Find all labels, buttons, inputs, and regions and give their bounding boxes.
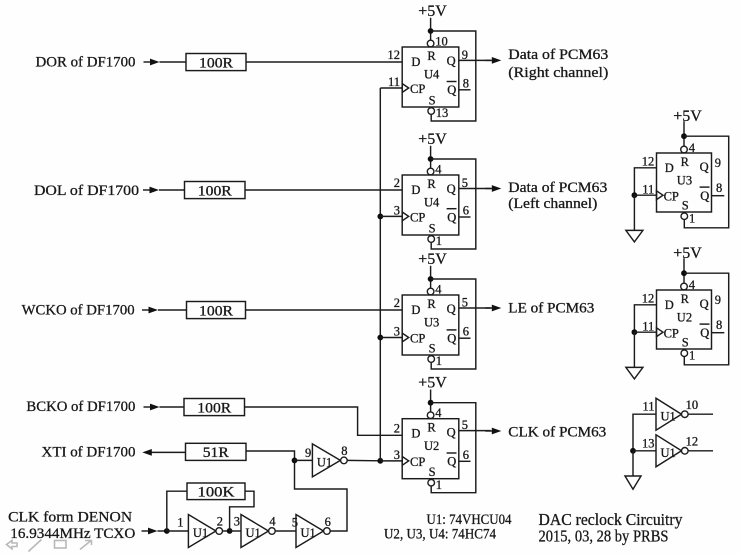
svg-text:+5V: +5V	[673, 245, 702, 262]
svg-text:D: D	[411, 183, 420, 197]
resistor R5 51R	[186, 443, 247, 461]
wire +5V wrap to S pin (spare U3)	[684, 136, 729, 228]
wire tie to ground (spare U2)	[633, 332, 635, 367]
wire +5V wrap to S pin (spare U2)	[684, 273, 729, 365]
wire U1e output stub	[688, 413, 713, 415]
U1a output bubble (pin 2)	[216, 528, 223, 535]
svg-text:D: D	[411, 303, 420, 317]
wire node A to inverter U1a	[167, 530, 189, 532]
svg-text:11: 11	[642, 319, 654, 333]
note U2 U3 U4 part number	[384, 526, 496, 542]
wire +5V wrap to S pin (U3)	[431, 279, 476, 369]
svg-text:100K: 100K	[198, 485, 236, 501]
svg-text:U1: U1	[661, 409, 676, 423]
svg-text:D: D	[411, 55, 420, 69]
+5V power label for spare U3	[673, 108, 702, 125]
arrow Data left channel	[485, 185, 501, 192]
R pin bubble (spare U3 pin 4)	[681, 146, 688, 153]
svg-text:100R: 100R	[199, 303, 233, 319]
svg-text:CP: CP	[664, 326, 679, 340]
pin 3 number (CP of U2)	[394, 448, 400, 462]
svg-text:LE of PCM63: LE of PCM63	[508, 300, 594, 316]
output label LE of PCM63	[508, 300, 594, 316]
pin 10 number (R of U4)	[435, 35, 448, 49]
pin 1 number (spare U3)	[689, 212, 695, 226]
+5V power label for U4	[418, 3, 447, 20]
pin 8 number (Q-bar of U4)	[463, 76, 469, 90]
svg-text:DOR of DF1700: DOR of DF1700	[36, 55, 136, 71]
junction +5V node (U4)	[428, 156, 434, 162]
junction spare inverter inputs	[630, 448, 636, 454]
junction +5V node (U4)	[428, 28, 434, 34]
svg-text:9: 9	[305, 446, 311, 460]
svg-text:1: 1	[436, 478, 442, 492]
wire R4 to D pin 2 of U2	[245, 407, 403, 435]
+5V power label for U2	[418, 375, 447, 392]
svg-text:S: S	[429, 465, 436, 479]
wire +5V wrap to S pin (U2)	[431, 403, 476, 493]
R pin bubble (spare U2 pin 4)	[681, 283, 688, 290]
pin 2 number (U1a output)	[217, 514, 223, 528]
svg-text:Q: Q	[447, 332, 456, 346]
wire U1f output stub	[688, 450, 713, 452]
arrow XTI output (left)	[142, 449, 185, 456]
+5V power label for U4	[418, 131, 447, 148]
wire Q pin 5 of U2 to output	[459, 430, 491, 432]
wire WCKO arrow to R3	[158, 309, 187, 311]
S pin active-low bubble (U4 pin 13)	[428, 108, 435, 115]
S pin active-low bubble (U3 pin 1)	[428, 356, 435, 363]
R pin active-low bubble (U4 pin 4)	[427, 168, 434, 175]
R pin active-low bubble (U3 pin 4)	[427, 288, 434, 295]
svg-text:3: 3	[394, 204, 400, 218]
wire CP bus to pin 3 of U3	[380, 337, 402, 339]
junction node B	[227, 528, 233, 534]
input label DOR of DF1700	[36, 55, 136, 71]
pin 6 number (U1c output)	[325, 515, 331, 529]
svg-text:CP: CP	[664, 189, 679, 203]
pin 9 number (Q of U4)	[462, 48, 468, 62]
pin 4 number (spare U2)	[689, 278, 696, 292]
input label CLK form DENON	[8, 510, 132, 526]
toolbar icon pen (faint)	[29, 540, 42, 552]
pin 5 number (Q of U4)	[462, 176, 468, 190]
U1c output bubble (pin 6)	[324, 528, 331, 535]
wire R1 to D pin 12 of U4	[246, 61, 402, 63]
svg-text:100R: 100R	[198, 183, 232, 199]
svg-text:U3: U3	[424, 315, 439, 329]
inverter U1b	[241, 515, 269, 548]
pin 12 number (spare U1f)	[686, 435, 699, 449]
wire tie to ground (spare U3)	[633, 195, 635, 230]
svg-text:CP: CP	[410, 455, 425, 469]
svg-text:+5V: +5V	[418, 131, 447, 148]
svg-text:2: 2	[217, 514, 223, 528]
wire CP bus to pin 3 of U2	[380, 460, 402, 462]
svg-text:Q: Q	[700, 160, 709, 174]
arrow LE output	[485, 305, 501, 312]
svg-text:13: 13	[642, 436, 655, 450]
wire CP bus to pin 11 of U4	[380, 87, 402, 89]
wire node to spare U1f	[633, 450, 656, 452]
junction CP bus bottom node	[377, 458, 383, 464]
pin 2 number (D of U3)	[394, 296, 400, 310]
output label Data of PCM63 (right)	[508, 47, 608, 63]
svg-text:R: R	[681, 155, 690, 169]
svg-text:13: 13	[436, 106, 449, 120]
resistor R1 100R	[186, 54, 246, 72]
svg-text:Q: Q	[700, 326, 709, 340]
svg-text:CLK form DENON: CLK form DENON	[8, 510, 132, 526]
toolbar icon forward arrow (faint)	[80, 541, 92, 550]
arrow CLK output	[485, 428, 501, 435]
svg-text:9: 9	[715, 156, 721, 170]
flip-flop U3 body	[402, 295, 459, 355]
svg-text:Q: Q	[447, 455, 456, 469]
ground symbol (spare inverters)	[625, 476, 641, 489]
ground symbol (spare U3)	[626, 230, 643, 242]
pin 2 number (D of U4)	[394, 176, 400, 190]
U1b output bubble (pin 4)	[269, 528, 276, 535]
flip-flop U4 body	[402, 175, 459, 235]
svg-text:16.9344MHz TCXO: 16.9344MHz TCXO	[10, 526, 135, 542]
svg-text:U1: U1	[301, 526, 316, 540]
flip-flop U2 spare body	[657, 290, 712, 349]
svg-text:Q: Q	[447, 426, 456, 440]
resistor R3 100R	[187, 302, 246, 320]
output label Data of PCM63 (left)	[508, 180, 607, 196]
pin 8 number (U1d output)	[341, 444, 347, 458]
pin 3 number (U1b input)	[234, 514, 240, 528]
ground symbol (spare U2)	[626, 367, 643, 379]
wire +5V to R pin dot (U2)	[430, 390, 432, 412]
svg-text:R: R	[427, 49, 436, 63]
svg-text:CP: CP	[410, 332, 425, 346]
flip-flop U3 spare body	[657, 153, 712, 212]
wire U1d output to CP bus	[347, 459, 380, 461]
svg-text:U4: U4	[424, 195, 440, 209]
svg-text:S: S	[429, 341, 436, 355]
pin 11 number (spare U3)	[642, 182, 654, 196]
svg-text:XTI of DF1700: XTI of DF1700	[42, 444, 136, 460]
toolbar icon back arrow (faint)	[7, 541, 18, 549]
inverter U1c	[296, 515, 324, 548]
pin 4 number (spare U3)	[689, 141, 696, 155]
input label BCKO of DF1700	[26, 399, 135, 415]
flip-flop U2 body	[402, 419, 459, 479]
svg-text:BCKO of DF1700: BCKO of DF1700	[26, 399, 135, 415]
wire +5V wrap to S pin (U4)	[431, 159, 476, 249]
pin 6 number (Q-bar of U4)	[463, 204, 469, 218]
svg-text:8: 8	[716, 318, 722, 332]
svg-text:U1: U1	[193, 526, 208, 540]
arrow WCKO input	[142, 307, 158, 314]
svg-text:12: 12	[388, 48, 401, 62]
pin 9 number (spare U2)	[715, 293, 721, 307]
wire spare inverters to ground	[632, 451, 634, 476]
wire CP pin 11 (spare U2)	[634, 331, 656, 333]
junction CP bus at U4b	[377, 214, 383, 220]
junction node A (oscillator input)	[164, 528, 170, 534]
svg-text:WCKO of DF1700: WCKO of DF1700	[22, 303, 135, 319]
inverter U1d buffer	[312, 444, 340, 477]
Q-bar pin stub (U4 pin 6)	[459, 216, 471, 218]
pin 1 number (S of U3)	[436, 354, 442, 368]
svg-text:8: 8	[463, 76, 469, 90]
title DAC reclock Circuitry	[539, 510, 683, 529]
pin 4 number (R of U4)	[435, 163, 442, 177]
wire CP bus vertical	[379, 88, 381, 461]
pin 13 number (spare U1f)	[642, 436, 655, 450]
arrow CLK input	[142, 528, 158, 535]
pin 8 number (spare U3)	[716, 181, 722, 195]
U1f output bubble (pin 12)	[682, 448, 689, 455]
svg-text:12: 12	[686, 435, 699, 449]
pin 12 number (spare U3)	[642, 154, 655, 168]
pin 9 number (spare U3)	[715, 156, 721, 170]
wire 100K left to node A	[167, 491, 187, 531]
flip-flop U4 body	[402, 47, 459, 107]
pin 10 number (spare U1e)	[686, 398, 699, 412]
svg-text:(Left channel): (Left channel)	[508, 196, 597, 212]
svg-text:D: D	[665, 298, 674, 312]
output label (Left channel)	[508, 196, 597, 212]
wire Q pin 9 of U4 to output	[459, 59, 491, 61]
svg-text:11: 11	[388, 75, 400, 89]
svg-text:12: 12	[642, 154, 655, 168]
svg-text:6: 6	[325, 515, 331, 529]
wire R5 to clock node	[246, 451, 295, 460]
svg-text:6: 6	[463, 448, 469, 462]
junction +5V node (U2)	[428, 400, 434, 406]
wire D pin 12 tie-down (spare U3)	[634, 168, 656, 195]
+5V power label for U3	[418, 251, 447, 268]
svg-text:2: 2	[394, 422, 400, 436]
svg-text:2: 2	[394, 176, 400, 190]
svg-text:CP: CP	[410, 211, 425, 225]
output label (Right channel)	[508, 65, 608, 81]
junction D/CP tie (spare U3)	[632, 192, 638, 198]
wire +5V to R pin (U2 spare)	[683, 258, 685, 283]
junction clock node (51R / U1d input)	[292, 458, 298, 464]
svg-text:8: 8	[341, 444, 347, 458]
wire clock node to U1d input	[295, 459, 313, 461]
svg-text:CP: CP	[410, 82, 425, 96]
junction D/CP tie (spare U2)	[632, 329, 638, 335]
S pin active-low bubble (U4 pin 1)	[428, 236, 435, 243]
svg-text:3: 3	[394, 448, 400, 462]
wire U1c output up to clock node	[295, 460, 348, 531]
svg-text:R: R	[681, 292, 690, 306]
junction +5V node (spare U3)	[681, 133, 687, 139]
svg-text:11: 11	[642, 399, 654, 413]
svg-text:+5V: +5V	[418, 375, 447, 392]
wire input of spare U1e	[633, 414, 656, 451]
svg-text:R: R	[427, 297, 436, 311]
svg-text:S: S	[429, 93, 436, 107]
svg-text:3: 3	[394, 325, 400, 339]
pin 11 number (spare U2)	[642, 319, 654, 333]
wire +5V to R pin dot (U4)	[430, 146, 432, 168]
svg-text:R: R	[427, 177, 436, 191]
wire 100K right to node B	[230, 491, 254, 531]
Q-bar pin stub (U2 pin 6)	[459, 460, 471, 462]
pin 2 number (D of U2)	[394, 422, 400, 436]
arrow BCKO input	[144, 404, 160, 411]
svg-text:S: S	[682, 335, 689, 349]
pin 1 number (spare U2)	[689, 349, 695, 363]
wire Q pin 5 of U3 to output	[459, 307, 491, 309]
svg-text:D: D	[665, 161, 674, 175]
pin 4 number (R of U2)	[435, 406, 442, 420]
input label WCKO of DF1700	[22, 303, 135, 319]
wire U1b output to U1c	[275, 530, 296, 532]
svg-text:+5V: +5V	[418, 3, 447, 20]
pin 12 number (spare U2)	[642, 291, 655, 305]
note U1 part number	[427, 512, 512, 528]
wire CLK arrow to node A	[158, 530, 167, 532]
pin 5 number (Q of U3)	[462, 296, 468, 310]
wire Q pin 5 of U4b to output	[459, 188, 491, 190]
title date and author	[539, 527, 669, 546]
svg-text:10: 10	[686, 398, 699, 412]
svg-text:1: 1	[689, 212, 695, 226]
junction +5V node (U3)	[428, 276, 434, 282]
arrow DOL input	[143, 187, 159, 194]
svg-text:Q: Q	[447, 210, 456, 224]
pin 13 number (S of U4)	[436, 106, 449, 120]
svg-text:9: 9	[715, 293, 721, 307]
output label XTI of DF1700	[42, 444, 136, 460]
inverter U1e spare	[656, 398, 682, 430]
svg-text:(Right channel): (Right channel)	[508, 65, 608, 81]
U1e output bubble (pin 10)	[682, 411, 689, 418]
pin 3 number (CP of U4)	[394, 204, 400, 218]
svg-text:U2: U2	[424, 439, 439, 453]
inverter U1a	[188, 515, 216, 548]
svg-text:100R: 100R	[197, 400, 231, 416]
Q-bar stub (spare U2 pin 8)	[712, 332, 725, 334]
resistor R2 100R	[185, 182, 246, 200]
svg-text:1: 1	[177, 516, 183, 530]
S pin bubble (spare U2 pin 1)	[681, 350, 688, 357]
wire U1a output to node B	[223, 530, 230, 532]
svg-text:U1: U1	[317, 456, 332, 470]
svg-text:Q: Q	[447, 54, 456, 68]
svg-text:51R: 51R	[203, 445, 229, 461]
wire D pin 12 tie-down (spare U2)	[634, 305, 656, 332]
svg-text:Q: Q	[447, 83, 456, 97]
pin 5 number (Q of U2)	[462, 418, 468, 432]
svg-text:8: 8	[716, 181, 722, 195]
junction CP bus at U3	[377, 335, 383, 341]
wire CP pin 11 (spare U3)	[634, 194, 656, 196]
svg-text:1: 1	[436, 354, 442, 368]
+5V power label for spare U2	[673, 245, 702, 262]
wire BCKO arrow to R4	[160, 406, 185, 408]
svg-text:3: 3	[234, 514, 240, 528]
svg-text:R: R	[427, 421, 436, 435]
svg-text:2: 2	[394, 296, 400, 310]
pin 11 number (CP of U4)	[388, 75, 400, 89]
wire R2 to D pin 2 of U4	[245, 189, 402, 191]
wire +5V wrap to S pin (U4)	[431, 31, 476, 121]
svg-text:4: 4	[269, 515, 276, 529]
pin 6 number (Q-bar of U3)	[463, 325, 469, 339]
pin 1 number (S of U2)	[436, 478, 442, 492]
svg-text:U1: U1	[246, 526, 261, 540]
pin 3 number (CP of U3)	[394, 325, 400, 339]
svg-text:+5V: +5V	[673, 108, 702, 125]
svg-text:6: 6	[463, 325, 469, 339]
input label DOL of DF1700	[34, 183, 139, 199]
wire node B to inverter U1b	[230, 530, 241, 532]
resistor R6 100K feedback	[187, 483, 245, 501]
output label CLK of PCM63	[508, 424, 606, 440]
svg-text:1: 1	[689, 349, 695, 363]
svg-text:6: 6	[463, 204, 469, 218]
wire +5V to R pin dot (U3)	[430, 266, 432, 288]
pin 4 number (R of U3)	[435, 283, 442, 297]
wire CP bus to pin 3 of U4b	[380, 215, 402, 217]
junction +5V node (spare U2)	[681, 270, 687, 276]
S pin bubble (spare U3 pin 1)	[681, 213, 688, 220]
toolbar icon rectangle (faint)	[55, 541, 67, 549]
pin 9 number (U1d input)	[305, 446, 311, 460]
wire +5V to R pin (U3 spare)	[683, 121, 685, 146]
pin 12 number (D of U4)	[388, 48, 401, 62]
svg-text:U1: U1	[661, 446, 676, 460]
svg-text:Data of PCM63: Data of PCM63	[508, 47, 608, 63]
pin 5 number (U1c input)	[292, 516, 298, 530]
svg-text:2015, 03, 28 by PRBS: 2015, 03, 28 by PRBS	[539, 527, 669, 546]
svg-text:U3: U3	[677, 173, 692, 187]
svg-text:100R: 100R	[199, 55, 233, 71]
R pin active-low bubble (U4 pin 10)	[427, 40, 434, 47]
svg-text:Q: Q	[700, 189, 709, 203]
pin 1 number (S of U4)	[436, 234, 442, 248]
svg-text:1: 1	[436, 234, 442, 248]
svg-text:11: 11	[642, 182, 654, 196]
svg-text:D: D	[411, 427, 420, 441]
arrow DOR input	[144, 59, 160, 66]
arrow Data right channel	[485, 57, 501, 64]
svg-text:Q: Q	[447, 302, 456, 316]
wire DOR arrow to R1	[160, 61, 187, 63]
pin 8 number (spare U2)	[716, 318, 722, 332]
svg-text:12: 12	[642, 291, 655, 305]
Q-bar stub (spare U3 pin 8)	[712, 195, 725, 197]
wire DOL arrow to R2	[159, 189, 185, 191]
svg-text:S: S	[682, 198, 689, 212]
wire +5V to R pin dot (U4)	[430, 18, 432, 40]
svg-text:Q: Q	[447, 182, 456, 196]
svg-text:U4: U4	[424, 67, 440, 81]
svg-text:CLK of PCM63: CLK of PCM63	[508, 424, 606, 440]
svg-text:Q: Q	[700, 297, 709, 311]
Q-bar pin stub (U4 pin 8)	[459, 89, 471, 91]
svg-text:U2: U2	[677, 310, 692, 324]
S pin active-low bubble (U2 pin 1)	[428, 479, 435, 486]
Q-bar pin stub (U3 pin 6)	[459, 337, 471, 339]
svg-text:Data of PCM63: Data of PCM63	[508, 180, 607, 196]
svg-text:U2, U3, U4: 74HC74: U2, U3, U4: 74HC74	[384, 526, 496, 542]
wire R3 to D pin 2 of U3	[246, 309, 403, 311]
pin 4 number (U1b output)	[269, 515, 276, 529]
pin 11 number (spare U1e)	[642, 399, 654, 413]
svg-text:5: 5	[292, 516, 298, 530]
pin 6 number (Q-bar of U2)	[463, 448, 469, 462]
